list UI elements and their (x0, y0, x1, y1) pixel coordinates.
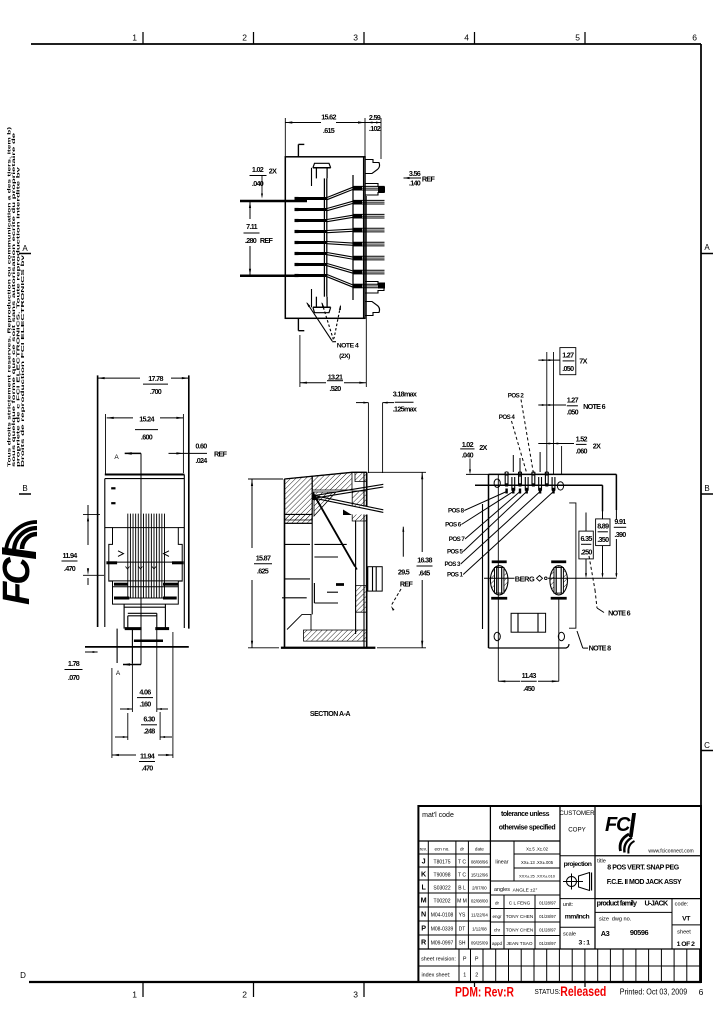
svg-text:0.60: 0.60 (195, 442, 207, 451)
section bottom-left wedge (287, 614, 311, 630)
svg-text:6.35: 6.35 (580, 534, 592, 543)
slot lead-in lines (512, 455, 514, 472)
svg-text:T00202: T00202 (434, 899, 451, 905)
dim 11.43/.450 (497, 474, 499, 681)
contact 1 (298, 197, 327, 200)
svg-text:1: 1 (132, 990, 137, 1000)
svg-text:.050: .050 (567, 408, 579, 417)
svg-text:SH: SH (459, 941, 466, 947)
svg-text:PDM: Rev:R: PDM: Rev:R (455, 985, 514, 1000)
contact 3 (298, 219, 327, 222)
svg-text:mm/inch: mm/inch (565, 914, 590, 921)
side view bottom-left step (297, 318, 299, 330)
svg-text:B L: B L (458, 886, 466, 892)
front view bottom edge (85, 646, 189, 648)
svg-text:dr: dr (495, 901, 500, 906)
svg-text:TONY CHEN: TONY CHEN (506, 914, 533, 919)
svg-text:FC: FC (0, 557, 38, 605)
VIEW 3 section A-A (281, 472, 384, 648)
side view bottom latch hook 4 (365, 302, 380, 316)
svg-text:tolerance unless: tolerance unless (501, 811, 550, 818)
front view thick bars (106, 561, 117, 564)
section hatched bottom wall (304, 630, 367, 641)
svg-text:.625: .625 (257, 567, 269, 576)
svg-text:B: B (22, 484, 27, 493)
section hatched top wall (312, 472, 352, 490)
svg-text:01/28/97: 01/28/97 (539, 941, 556, 946)
svg-text:BERG: BERG (515, 574, 535, 583)
svg-text:(2X): (2X) (339, 353, 350, 360)
svg-text:dwg no.: dwg no. (612, 917, 632, 923)
FCI logo in title block (595, 855, 701, 857)
svg-text:Printed: Oct 03, 2009: Printed: Oct 03, 2009 (620, 987, 688, 997)
svg-text:01/28/97: 01/28/97 (539, 901, 556, 906)
svg-text:.700: .700 (150, 387, 162, 396)
svg-text:STATUS:: STATUS: (535, 987, 561, 996)
front view below-body posts (116, 647, 118, 663)
svg-text:01/28/97: 01/28/97 (539, 914, 556, 919)
side view front wall stubs (311, 168, 313, 186)
bottom view snap pegs (490, 566, 508, 595)
svg-text:POS 4: POS 4 (499, 414, 516, 421)
svg-text:.140: .140 (409, 179, 421, 188)
bottom zone ticks (142, 982, 144, 997)
svg-text:1: 1 (463, 973, 466, 979)
svg-text:M09-0997: M09-0997 (431, 941, 454, 947)
front view outer sides (97, 375, 99, 627)
VIEW 2 front view of jack (85, 375, 189, 663)
svg-text:date: date (475, 847, 484, 852)
bottom view center line through pegs (484, 577, 515, 579)
dim 7.11/.280 REF extension lines (240, 200, 307, 203)
dim 15.24/.600 (105, 414, 107, 474)
section hatched top-left wall (285, 476, 313, 520)
dim 0.60/.024 REF (169, 452, 208, 454)
svg-text:8.89: 8.89 (597, 522, 609, 531)
svg-text:15/12/96: 15/12/96 (471, 873, 489, 878)
dim 11.94/.470 (left vertical) (83, 513, 100, 515)
NOTE 8 leader (577, 631, 583, 648)
section mid guides (314, 543, 346, 545)
svg-text:code:: code: (675, 902, 689, 908)
dim 6.30/.248 (127, 713, 129, 740)
svg-text:1/12/08: 1/12/08 (472, 927, 487, 932)
svg-text:.040: .040 (462, 451, 474, 460)
svg-text:3: 3 (353, 33, 358, 43)
svg-text:3.18max: 3.18max (393, 390, 417, 399)
svg-text:15.87: 15.87 (256, 554, 271, 563)
svg-text:NOTE 6: NOTE 6 (608, 609, 630, 618)
front view contact comb (127, 514, 129, 598)
svg-text:1.78: 1.78 (68, 659, 80, 668)
side view bottom PCB post (313, 307, 331, 312)
dim 1.27/.050 NOTE 6 (538, 404, 566, 406)
section contact beam (314, 495, 355, 567)
svg-text:sheet: sheet (677, 930, 691, 936)
front view jack aperture (109, 528, 182, 605)
svg-text:U-JACK: U-JACK (645, 899, 669, 908)
contact 7 (298, 263, 327, 266)
svg-text:F.C.E. II MOD JACK ASSY: F.C.E. II MOD JACK ASSY (607, 879, 682, 886)
dim 13.21/.520 (299, 335, 301, 387)
svg-text:M: M (421, 896, 427, 905)
svg-text:POS 2: POS 2 (508, 393, 525, 400)
side view body outline (285, 157, 365, 318)
svg-text:POS 1: POS 1 (447, 572, 464, 579)
dim 15.62/.615 (284, 118, 286, 156)
svg-text:2/07/00: 2/07/00 (472, 886, 487, 891)
dim 16.38/.645 (368, 471, 426, 473)
svg-text:otherwise specified: otherwise specified (499, 825, 556, 832)
front view lower post structure (123, 604, 125, 629)
svg-text:CUSTOMER: CUSTOMER (559, 810, 595, 817)
svg-text:90596: 90596 (630, 928, 649, 937)
dim 1.52/.060 2X (538, 443, 574, 445)
bottom view inner right bracket (569, 503, 576, 628)
svg-text:NOTE 6: NOTE 6 (583, 402, 605, 411)
side view top latch hook 2 (365, 184, 384, 196)
svg-text:7X: 7X (579, 357, 587, 366)
svg-text:A3: A3 (601, 929, 610, 938)
bottom view latch window (511, 613, 545, 632)
dim boxed 8.89/.350 (596, 519, 610, 546)
bottom view outer outline (488, 474, 490, 648)
svg-text:VT: VT (682, 916, 691, 923)
svg-text:M04-0108: M04-0108 (431, 913, 454, 919)
svg-text:REF: REF (422, 175, 436, 184)
FCI logo left margin (rotated) (0, 522, 38, 605)
svg-text:A: A (704, 243, 710, 252)
svg-text:17.78: 17.78 (148, 374, 163, 383)
svg-text:2: 2 (475, 973, 478, 979)
svg-text:scale: scale (563, 932, 576, 938)
svg-text:C L FENG: C L FENG (509, 901, 531, 906)
svg-text:.470: .470 (64, 564, 76, 573)
svg-text:6: 6 (699, 987, 704, 997)
svg-text:NOTE 8: NOTE 8 (589, 644, 611, 653)
svg-text:Droits de reproduction FCI ELE: Droits de reproduction FCI ELECTRONICS b… (20, 254, 25, 467)
svg-text:2: 2 (242, 990, 247, 1000)
svg-text:3 : 1: 3 : 1 (578, 940, 590, 947)
svg-text:1.27: 1.27 (567, 396, 579, 405)
section A-A cutting line (140, 453, 142, 664)
svg-text:15.24: 15.24 (139, 415, 154, 424)
svg-text:16.38: 16.38 (417, 556, 432, 565)
svg-text:7.11: 7.11 (246, 222, 257, 231)
svg-text:index sheet:: index sheet: (421, 973, 450, 979)
border frame right line (700, 44, 702, 982)
sheet revision / index rows (418, 948, 701, 950)
svg-text:2X: 2X (269, 167, 277, 176)
svg-text:POS 6: POS 6 (445, 522, 462, 529)
svg-text:size: size (599, 917, 609, 923)
svg-text:A: A (116, 670, 121, 677)
svg-text:product family: product family (597, 899, 637, 908)
dim 11.94/.470 (bottom) (111, 668, 113, 758)
svg-text:projection: projection (564, 861, 592, 868)
svg-text:A: A (22, 244, 28, 253)
svg-text:.024: .024 (195, 456, 207, 465)
side view top PCB post (313, 163, 331, 168)
front view face sides (104, 479, 106, 627)
svg-text:.125max: .125max (393, 405, 417, 414)
svg-text:T C: T C (458, 873, 466, 879)
svg-text:.615: .615 (323, 126, 335, 135)
svg-text:engr: engr (492, 914, 502, 919)
svg-text:1: 1 (132, 33, 137, 43)
svg-text:6: 6 (692, 33, 697, 43)
dim 29.5 REF (402, 527, 404, 557)
svg-text:13.21: 13.21 (328, 373, 343, 382)
svg-text:angles: angles (494, 887, 510, 893)
svg-text:REF: REF (260, 236, 274, 245)
svg-text:B: B (704, 484, 709, 493)
svg-text:sheet revision:: sheet revision: (421, 957, 456, 963)
section inner walls (311, 476, 313, 614)
svg-text:5: 5 (575, 33, 580, 43)
svg-text:1.52: 1.52 (576, 435, 588, 444)
svg-text:POS 5: POS 5 (447, 549, 464, 556)
svg-text:rev.: rev. (420, 847, 427, 852)
svg-text:unit:: unit: (563, 902, 574, 908)
svg-text:A: A (114, 454, 119, 461)
dim 4.06/.160 (131, 647, 133, 712)
svg-text:YS: YS (459, 913, 466, 919)
svg-text:REF: REF (214, 450, 228, 459)
approval rows (490, 908, 560, 910)
side view top latch hook 1 (365, 160, 380, 174)
svg-text:SECTION A-A: SECTION A-A (310, 711, 351, 718)
bottom view mounting holes (494, 479, 500, 487)
dim 15.87/.625 (248, 478, 283, 480)
contact 6 (298, 252, 327, 255)
svg-text:N: N (421, 910, 426, 919)
svg-text:chr: chr (494, 928, 501, 933)
svg-text:09/25/09: 09/25/09 (471, 941, 489, 946)
svg-text:11.94: 11.94 (62, 551, 77, 560)
svg-text:.520: .520 (329, 384, 341, 393)
svg-text:www.fciconnect.com: www.fciconnect.com (648, 849, 693, 855)
svg-text:08/08/96: 08/08/96 (471, 860, 489, 865)
svg-text:P: P (463, 957, 467, 963)
svg-text:2X: 2X (593, 442, 601, 451)
contact 4 (298, 230, 327, 233)
svg-text:TONY CHEN: TONY CHEN (506, 928, 533, 933)
section body outline (284, 479, 286, 648)
VIEW 1 side view of jack (285, 144, 385, 330)
svg-text:4: 4 (464, 33, 469, 43)
side view comb walls (323, 178, 325, 296)
svg-text:.470: .470 (141, 764, 153, 773)
dim 17.78/.700 (98, 377, 140, 379)
dim 2.59/.102 (365, 122, 381, 124)
svg-text:linear: linear (495, 860, 508, 866)
front view latch arrows (118, 551, 124, 557)
svg-text:M M: M M (457, 899, 467, 905)
svg-text:XXX±.25 .XXX±.010: XXX±.25 .XXX±.010 (519, 874, 556, 879)
svg-text:.250: .250 (580, 548, 592, 557)
svg-text:29.5: 29.5 (398, 568, 410, 577)
svg-text:1.02: 1.02 (252, 165, 264, 174)
svg-text:C: C (704, 741, 710, 750)
svg-text:.390: .390 (614, 530, 626, 539)
svg-text:01/28/97: 01/28/97 (539, 928, 556, 933)
svg-text:1.27: 1.27 (562, 351, 574, 360)
svg-text:mat'l code: mat'l code (422, 812, 454, 819)
svg-text:D: D (20, 971, 26, 980)
svg-text:11.43: 11.43 (522, 671, 537, 680)
svg-text:.350: .350 (597, 535, 609, 544)
front view wall dashes (111, 487, 115, 489)
svg-text:T C: T C (458, 860, 466, 866)
svg-text:COPY: COPY (568, 827, 586, 834)
svg-text:T80175: T80175 (434, 860, 451, 866)
title block (418, 806, 701, 982)
svg-text:appd: appd (492, 941, 503, 946)
side view bottom latch hook 3 (365, 282, 384, 294)
svg-text:3.56: 3.56 (409, 169, 421, 178)
top zone ticks (142, 32, 144, 44)
svg-text:M08-0339: M08-0339 (431, 927, 454, 933)
section left wall lines (285, 513, 313, 515)
svg-text:NOTE 4: NOTE 4 (337, 342, 359, 349)
svg-text:15.62: 15.62 (321, 113, 336, 122)
front view face top double line (105, 474, 185, 476)
section latch cross-section square (368, 567, 382, 591)
svg-text:.060: .060 (576, 447, 588, 456)
svg-text:dr: dr (460, 847, 465, 852)
contact 5 (298, 241, 327, 244)
svg-text:P: P (475, 957, 479, 963)
border frame top line (31, 43, 701, 45)
dim 7.11/.280 REF (249, 201, 251, 219)
section hatched right wall lower (356, 586, 367, 613)
svg-text:.248: .248 (143, 727, 155, 736)
svg-text:.600: .600 (141, 433, 153, 442)
svg-text:.450: .450 (523, 684, 535, 693)
svg-text:4.06: 4.06 (139, 688, 151, 697)
svg-text:.050: .050 (562, 364, 574, 373)
svg-text:.160: .160 (139, 700, 151, 709)
dim boxed 6.35/.250 (579, 531, 593, 559)
svg-text:1.02: 1.02 (462, 440, 474, 449)
svg-text:11/22/04: 11/22/04 (471, 913, 488, 918)
svg-text:FC: FC (605, 814, 631, 836)
svg-text:3: 3 (353, 990, 358, 1000)
svg-text:.102: .102 (369, 124, 381, 133)
NOTE 6 leader (lower) (589, 556, 595, 590)
svg-text:T90098: T90098 (434, 873, 451, 879)
svg-text:02/08/00: 02/08/00 (471, 899, 489, 904)
svg-text:2X: 2X (479, 443, 487, 452)
svg-text:DT: DT (459, 927, 466, 933)
dim 3.56/.140 REF (404, 177, 410, 179)
svg-text:11.94: 11.94 (140, 752, 155, 761)
svg-text:XX±.13 .XX±.005: XX±.13 .XX±.005 (521, 860, 554, 865)
border frame bottom line (29, 981, 701, 983)
bottom view contact slots (504, 472, 506, 486)
svg-text:.070: .070 (68, 673, 80, 682)
svg-text:.645: .645 (418, 569, 430, 578)
svg-text:2: 2 (242, 33, 247, 43)
side view top-left step (297, 144, 299, 156)
svg-text:.280: .280 (245, 236, 257, 245)
svg-text:ecn no.: ecn no. (434, 847, 449, 852)
contact 8 (298, 274, 327, 277)
dim boxed 1.27/.050 7X (560, 348, 576, 375)
contact 2 (298, 208, 327, 211)
svg-text:X±.5 .X±.02: X±.5 .X±.02 (526, 847, 548, 852)
svg-text:JEAN TSAO: JEAN TSAO (507, 941, 533, 946)
svg-text:8 POS VERT. SNAP PEG: 8 POS VERT. SNAP PEG (607, 865, 679, 872)
svg-text:POS 3: POS 3 (444, 561, 461, 568)
svg-text:REF: REF (400, 580, 414, 589)
svg-text:2.59: 2.59 (369, 113, 381, 122)
svg-text:6.30: 6.30 (143, 715, 155, 724)
front view aperture horizontal lines (105, 527, 113, 529)
svg-text:Released: Released (560, 984, 606, 999)
svg-text:S03022: S03022 (433, 886, 450, 892)
section contact pins top (314, 484, 383, 495)
dim 3.18max/.125max (367, 403, 369, 473)
VIEW 4 bottom view (475, 452, 616, 648)
svg-text:title: title (597, 859, 606, 865)
svg-text:POS 7: POS 7 (449, 536, 466, 543)
svg-text:ANGLE ±2°: ANGLE ±2° (513, 888, 538, 894)
svg-text:POS 8: POS 8 (448, 508, 465, 515)
svg-text:1 OF 2: 1 OF 2 (677, 941, 695, 948)
